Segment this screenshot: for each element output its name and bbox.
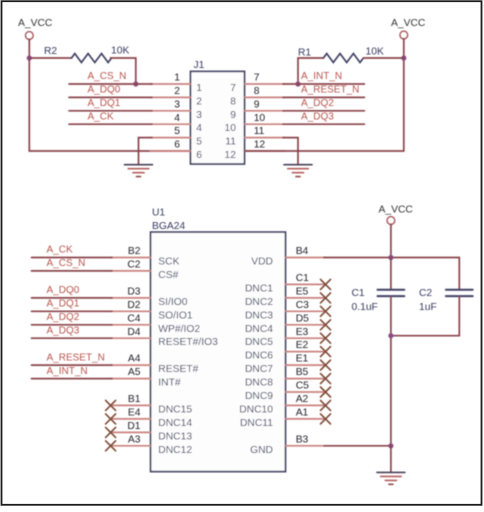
svg-text:2: 2: [174, 86, 180, 97]
svg-text:D1: D1: [127, 421, 140, 432]
svg-text:11: 11: [225, 137, 236, 148]
svg-text:CS#: CS#: [158, 270, 178, 281]
svg-text:D3: D3: [127, 287, 140, 298]
wire A_RESET_N to U1 pin A4: [32, 364, 113, 366]
junction right VCC / R1: [401, 55, 406, 60]
power symbol A_VCC top-left: [18, 18, 53, 40]
svg-text:C1: C1: [352, 288, 365, 299]
svg-text:7: 7: [230, 83, 236, 94]
wire A_DQ0 to U1 pin D3: [32, 297, 113, 299]
svg-text:A_CS_N: A_CS_N: [88, 71, 127, 82]
svg-text:2: 2: [196, 96, 202, 107]
svg-text:SO/IO1: SO/IO1: [158, 310, 193, 321]
junction R2 / A_CS_N net: [133, 81, 138, 86]
svg-text:A3: A3: [128, 434, 141, 445]
svg-text:10K: 10K: [111, 46, 129, 57]
svg-text:C2: C2: [127, 260, 140, 271]
svg-text:A_INT_N: A_INT_N: [301, 71, 342, 82]
svg-text:12: 12: [225, 150, 237, 161]
junction C2 / C1 branch: [388, 333, 393, 338]
svg-text:8: 8: [230, 96, 236, 107]
svg-text:C5: C5: [296, 381, 309, 392]
svg-text:DNC3: DNC3: [245, 310, 273, 321]
junction left VCC / R2: [27, 55, 32, 60]
svg-text:8: 8: [254, 86, 260, 97]
wire A_DQ2 to J1 pin 9: [283, 110, 364, 112]
capacitor C1 0.1uF: [352, 258, 405, 446]
wire VDD rail to C2: [324, 258, 459, 290]
svg-text:A_VCC: A_VCC: [379, 205, 414, 216]
svg-text:0.1uF: 0.1uF: [352, 302, 378, 313]
J1 inside pin names 7-12: [225, 83, 237, 161]
svg-text:WP#/IO2: WP#/IO2: [158, 324, 200, 335]
wire U1 GND pin to ground: [324, 445, 391, 447]
svg-text:A_CK: A_CK: [88, 111, 114, 122]
svg-text:SI/IO0: SI/IO0: [158, 297, 187, 308]
no-connect crosses U1 right pins: [321, 279, 331, 424]
svg-text:A_INT_N: A_INT_N: [47, 366, 88, 377]
wire C2 bottom to C1 branch: [391, 335, 459, 337]
svg-text:A_DQ3: A_DQ3: [47, 325, 80, 336]
U1 left pin stubs: [111, 258, 151, 446]
wire A_CK to U1 pin B2: [32, 257, 113, 259]
wire A_CK to J1 pin 4: [69, 123, 152, 125]
wire A_DQ3 to J1 pin 10: [283, 123, 364, 125]
svg-text:A2: A2: [296, 394, 309, 405]
svg-text:DNC12: DNC12: [158, 445, 192, 456]
svg-text:1uF: 1uF: [419, 302, 437, 313]
svg-text:A1: A1: [296, 408, 309, 419]
U1 right pin names: [239, 257, 273, 456]
svg-text:10: 10: [254, 113, 266, 124]
junction R1 / A_INT_N net: [295, 81, 300, 86]
svg-text:R2: R2: [44, 46, 57, 57]
svg-text:9: 9: [230, 110, 236, 121]
svg-text:D2: D2: [127, 300, 140, 311]
wire J1 pin 5 to ground: [139, 138, 153, 165]
svg-text:INT#: INT#: [158, 378, 181, 389]
ground symbol under J1 pin 5: [125, 165, 153, 177]
wire A_INT_N to U1 pin A5: [32, 378, 113, 380]
svg-text:5: 5: [174, 126, 180, 137]
connector J1: [191, 60, 245, 164]
svg-text:E3: E3: [296, 327, 309, 338]
power symbol A_VCC top-right: [391, 18, 426, 39]
svg-text:BGA24: BGA24: [152, 221, 185, 232]
svg-text:B3: B3: [296, 434, 309, 445]
svg-text:DNC4: DNC4: [245, 324, 273, 335]
J1 pin numbers 1-6: [174, 73, 180, 151]
J1 right pin stubs: [245, 84, 285, 151]
U1 left pin numbers: [127, 246, 140, 445]
svg-text:4: 4: [174, 113, 180, 124]
svg-text:E2: E2: [296, 340, 309, 351]
svg-text:7: 7: [254, 73, 260, 84]
junction GND net: [388, 443, 393, 448]
wire A_RESET_N to J1 pin 8: [283, 96, 364, 98]
svg-text:U1: U1: [152, 208, 165, 219]
wire A_DQ3 to U1 pin D4: [32, 337, 113, 339]
wire J1 pin 11 to ground: [283, 138, 298, 165]
svg-text:J1: J1: [194, 60, 205, 71]
svg-text:A_CK: A_CK: [47, 245, 73, 256]
svg-text:A_VCC: A_VCC: [18, 18, 53, 29]
svg-text:10K: 10K: [366, 47, 384, 58]
svg-text:A5: A5: [128, 367, 141, 378]
svg-text:3: 3: [174, 99, 180, 110]
svg-text:DNC11: DNC11: [240, 418, 273, 429]
J1 pin numbers 7-12: [254, 73, 266, 151]
svg-text:DNC6: DNC6: [245, 351, 273, 362]
svg-text:B2: B2: [128, 246, 141, 257]
svg-text:12: 12: [254, 140, 266, 151]
svg-text:A_CS_N: A_CS_N: [47, 258, 86, 269]
svg-text:R1: R1: [298, 47, 311, 58]
svg-text:1: 1: [196, 83, 202, 94]
svg-text:C1: C1: [296, 273, 309, 284]
svg-text:11: 11: [254, 126, 265, 137]
svg-text:3: 3: [196, 110, 202, 121]
wire VCC to VDD rail: [390, 224, 392, 257]
no-connect crosses U1 left pins: [106, 400, 116, 450]
J1 left pin stubs: [150, 84, 190, 151]
svg-text:VDD: VDD: [251, 257, 273, 268]
svg-text:A_DQ1: A_DQ1: [88, 98, 121, 109]
svg-text:A_VCC: A_VCC: [391, 18, 426, 29]
wire A_INT_N to J1 pin 7: [283, 83, 364, 85]
svg-text:A_DQ3: A_DQ3: [301, 111, 334, 122]
svg-text:1: 1: [174, 73, 180, 84]
svg-text:4: 4: [196, 123, 202, 134]
J1 inside pin names 1-6: [196, 83, 202, 161]
wire VCC right rail to J1 pin 12: [245, 39, 404, 151]
svg-text:6: 6: [196, 150, 202, 161]
junction VDD / C1: [388, 255, 393, 260]
ground symbol under J1 pin 11: [284, 165, 312, 177]
U1 right pin stubs: [286, 258, 326, 446]
svg-text:DNC8: DNC8: [245, 378, 273, 389]
svg-text:RESET#: RESET#: [158, 364, 198, 375]
svg-text:10: 10: [225, 123, 237, 134]
wire A_DQ0 to J1 pin 2: [69, 96, 152, 98]
wire A_CS_N to U1 pin C2: [32, 270, 113, 272]
svg-text:DNC5: DNC5: [245, 337, 273, 348]
svg-text:DNC2: DNC2: [245, 297, 273, 308]
svg-text:DNC7: DNC7: [245, 364, 273, 375]
svg-text:DNC14: DNC14: [158, 418, 192, 429]
svg-text:5: 5: [196, 137, 202, 148]
svg-text:A_DQ2: A_DQ2: [301, 98, 334, 109]
svg-text:GND: GND: [250, 445, 273, 456]
svg-text:C4: C4: [127, 313, 140, 324]
svg-text:E4: E4: [128, 408, 141, 419]
capacitor C2 1uF: [419, 288, 473, 336]
wire A_DQ1 to U1 pin D2: [32, 310, 113, 312]
svg-text:DNC13: DNC13: [158, 431, 192, 442]
svg-text:SCK: SCK: [158, 257, 179, 268]
svg-text:A_DQ2: A_DQ2: [47, 312, 80, 323]
svg-text:A_RESET_N: A_RESET_N: [47, 352, 105, 363]
svg-text:B4: B4: [296, 246, 309, 257]
svg-text:DNC10: DNC10: [239, 404, 273, 415]
wire VCC left rail to J1 pin 6: [29, 39, 190, 151]
wire down to ground symbol: [390, 446, 392, 473]
svg-text:B5: B5: [296, 367, 309, 378]
IC U1 BGA24: [151, 208, 286, 472]
resistor R2 10K: [29, 46, 136, 85]
svg-text:D4: D4: [127, 327, 140, 338]
svg-text:DNC1: DNC1: [245, 283, 273, 294]
svg-text:E5: E5: [296, 287, 309, 298]
svg-text:DNC9: DNC9: [245, 391, 273, 402]
svg-text:C2: C2: [419, 288, 432, 299]
wire A_DQ1 to J1 pin 3: [69, 110, 152, 112]
resistor R1 10K: [298, 47, 404, 85]
svg-text:D5: D5: [296, 313, 309, 324]
svg-text:6: 6: [174, 140, 180, 151]
U1 left pin names: [158, 257, 218, 456]
svg-text:A_DQ1: A_DQ1: [47, 299, 80, 310]
svg-text:E1: E1: [296, 354, 309, 365]
svg-text:B1: B1: [128, 394, 141, 405]
svg-text:A4: A4: [128, 354, 141, 365]
svg-text:C3: C3: [296, 300, 309, 311]
ground symbol bottom: [377, 472, 405, 484]
U1 right pin numbers: [296, 246, 309, 445]
svg-text:RESET#/IO3: RESET#/IO3: [158, 337, 218, 348]
svg-text:A_DQ0: A_DQ0: [88, 85, 121, 96]
svg-text:A_RESET_N: A_RESET_N: [301, 85, 359, 96]
power symbol A_VCC bottom: [379, 205, 414, 225]
svg-text:A_DQ0: A_DQ0: [47, 285, 80, 296]
svg-text:9: 9: [254, 99, 260, 110]
svg-text:DNC15: DNC15: [158, 404, 192, 415]
wire A_DQ2 to U1 pin C4: [32, 324, 113, 326]
wire A_CS_N to J1 pin 1: [69, 83, 152, 85]
